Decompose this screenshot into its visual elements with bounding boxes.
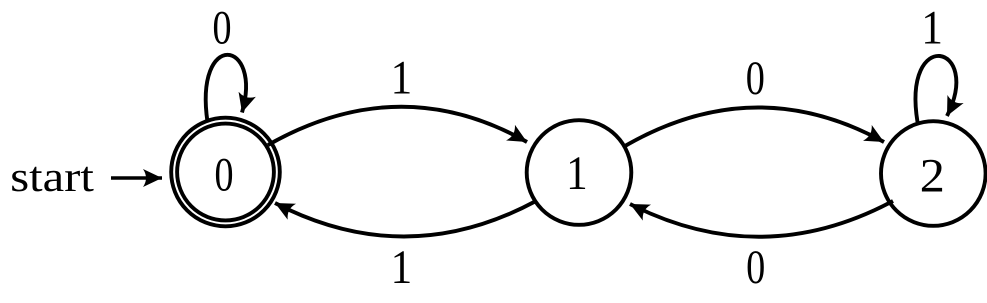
state 1 — [527, 120, 632, 225]
state 0 (accepting, double circle) — [171, 118, 280, 227]
self-loop on state 2 — [916, 56, 957, 122]
transition 1 to 2 — [625, 107, 884, 146]
start label — [12, 167, 93, 192]
state 0 label "0" — [216, 159, 232, 191]
transition 2 to 1 label "0" — [748, 251, 764, 283]
transition 1 to 2 label "0" — [747, 62, 763, 94]
self-loop on state 0 — [206, 55, 246, 122]
state 1 label "1" — [570, 157, 585, 189]
transition 2 to 1 — [630, 201, 893, 237]
state 2 label "2" — [922, 160, 942, 192]
self-loop 2 label "1" — [925, 12, 940, 44]
transition 0 to 1 label "1" — [394, 62, 409, 94]
state 2 — [881, 121, 986, 226]
transition 1 to 0 label "1" — [394, 251, 409, 283]
self-loop 0 label "0" — [214, 12, 230, 44]
transition 0 to 1 — [268, 107, 527, 145]
transition 1 to 0 — [275, 201, 536, 237]
start arrow — [111, 176, 162, 180]
